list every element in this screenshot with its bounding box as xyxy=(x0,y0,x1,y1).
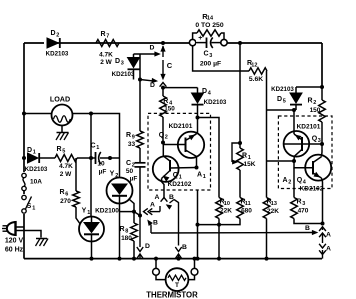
svg-text:470: 470 xyxy=(298,208,309,215)
thermistor T xyxy=(146,268,198,299)
svg-text:2 W: 2 W xyxy=(100,59,112,66)
svg-text:D: D xyxy=(27,147,32,154)
svg-text:22K: 22K xyxy=(267,208,279,215)
svg-text:5.6K: 5.6K xyxy=(249,76,263,83)
wire right drop from top rail xyxy=(321,43,323,87)
wire left rail xyxy=(23,43,25,259)
svg-text:C: C xyxy=(126,160,131,167)
svg-text:1: 1 xyxy=(32,206,35,212)
wire top to R1 xyxy=(239,43,241,143)
wire Q2 base xyxy=(163,144,186,146)
node dot thermistor right xyxy=(193,257,197,261)
thermistor terminal right xyxy=(191,259,198,276)
resistor R6 xyxy=(59,158,79,224)
ground near plug xyxy=(36,239,49,247)
svg-text:Y: Y xyxy=(82,208,87,215)
wire bottom rail xyxy=(24,258,322,260)
node dot D5 bottom xyxy=(292,108,296,112)
resistor R7 xyxy=(96,31,119,66)
svg-text:D: D xyxy=(115,58,120,65)
switch S1 xyxy=(21,194,35,214)
svg-text:A: A xyxy=(326,246,331,253)
node dot D4 bottom xyxy=(196,116,200,120)
svg-text:120 V: 120 V xyxy=(5,238,24,245)
svg-text:3: 3 xyxy=(121,61,124,67)
node dot R8 on rail xyxy=(132,257,136,261)
svg-text:50: 50 xyxy=(126,168,134,175)
node dot after C1 xyxy=(108,156,112,160)
svg-text:KD2100: KD2100 xyxy=(95,208,119,215)
thyristor Y2 xyxy=(107,171,133,259)
node dot emitter col y224 xyxy=(196,223,200,227)
svg-text:R: R xyxy=(296,199,301,206)
svg-text:6: 6 xyxy=(65,192,68,198)
wire D5 top to R2 top xyxy=(296,86,322,88)
wire Q2 emitter node right xyxy=(198,118,220,198)
svg-text:1: 1 xyxy=(87,210,90,216)
svg-text:1: 1 xyxy=(33,150,36,156)
wire plug neutral xyxy=(16,231,41,238)
svg-text:R: R xyxy=(56,146,61,153)
wire Q4 collector up xyxy=(321,144,324,157)
svg-text:KD2103: KD2103 xyxy=(25,166,48,173)
wire Q3 base xyxy=(284,143,322,145)
wire Q1 collector up to R4 node xyxy=(162,143,164,157)
node dot Y2 cathode on rail xyxy=(118,257,122,261)
capacitor C1 xyxy=(90,143,119,176)
net A arrow left xyxy=(144,201,161,215)
svg-text:2: 2 xyxy=(288,180,291,186)
net A arrows right column xyxy=(319,227,331,259)
node dot R2 top xyxy=(320,85,324,89)
svg-text:KD2101: KD2101 xyxy=(169,123,193,130)
net C connector arrows xyxy=(160,46,173,87)
resistor R2 xyxy=(307,87,325,144)
wire C node to R4 and D4 xyxy=(163,88,198,96)
svg-text:R: R xyxy=(242,153,247,160)
svg-text:2: 2 xyxy=(313,100,316,106)
svg-text:10A: 10A xyxy=(30,179,42,186)
svg-text:33: 33 xyxy=(128,141,136,148)
node dot C bottom junction xyxy=(161,86,165,90)
svg-text:5: 5 xyxy=(62,149,65,155)
svg-text:150: 150 xyxy=(310,107,321,114)
resistor R12 xyxy=(247,60,267,83)
svg-text:D: D xyxy=(202,88,207,95)
resistor R4 xyxy=(160,96,176,143)
dashed box module A2 xyxy=(278,116,332,189)
svg-text:7: 7 xyxy=(106,34,109,40)
svg-text:D: D xyxy=(50,30,55,37)
svg-text:0 TO 250: 0 TO 250 xyxy=(195,22,223,29)
svg-text:KD2102: KD2102 xyxy=(300,186,324,193)
wire R5 to C1 xyxy=(77,157,96,159)
net arrow A B below A1 xyxy=(155,194,175,202)
svg-text:11: 11 xyxy=(245,201,251,207)
net D arrow to rail xyxy=(137,216,150,259)
svg-text:B: B xyxy=(182,244,187,251)
svg-text:R: R xyxy=(163,98,168,105)
node dot Q2 collector Q1 base xyxy=(195,166,199,170)
net D arrow top xyxy=(150,45,160,56)
svg-text:2: 2 xyxy=(165,135,168,141)
node dot R2 bottom Q3 base xyxy=(320,142,324,146)
net B hook to lower column xyxy=(167,200,179,246)
svg-text:1: 1 xyxy=(179,175,182,181)
svg-text:B: B xyxy=(305,225,310,232)
resistor R10 xyxy=(216,198,233,259)
wire Q4 base node down xyxy=(293,168,295,198)
terminal circle left of C3 xyxy=(189,39,195,45)
svg-text:KD2103: KD2103 xyxy=(271,86,294,93)
wire rail to load xyxy=(24,113,52,115)
transistor Q4 xyxy=(282,155,331,193)
svg-text:R: R xyxy=(307,98,312,105)
svg-text:3: 3 xyxy=(318,138,321,144)
wire Q3 emitter up to D5 node xyxy=(293,110,295,134)
svg-text:13: 13 xyxy=(271,201,277,207)
label A1 xyxy=(197,172,206,181)
wire bypass top to D5 node xyxy=(267,109,295,111)
node dot left rail at D1 xyxy=(22,156,26,160)
wire bypass bottom to Q4 base node xyxy=(267,160,295,162)
resistor R11 xyxy=(237,198,253,219)
ground under load xyxy=(56,126,69,141)
svg-text:KD2103: KD2103 xyxy=(112,71,135,78)
wire C3 left terminal down xyxy=(193,46,249,71)
wire top rail xyxy=(24,42,322,44)
svg-text:2 W: 2 W xyxy=(60,171,72,178)
svg-text:KD2103: KD2103 xyxy=(204,99,227,106)
svg-text:4.7K: 4.7K xyxy=(99,52,113,59)
svg-text:9: 9 xyxy=(132,135,135,141)
transistor Q3 xyxy=(284,124,321,157)
svg-text:R: R xyxy=(100,31,105,38)
resistor R9 xyxy=(126,80,143,149)
wire Y2 gate xyxy=(130,200,135,212)
node dot R4 bottom Q1 collector xyxy=(161,141,165,145)
wire Q3 collector down xyxy=(293,156,295,161)
capacitor C2 xyxy=(126,148,146,216)
svg-text:8: 8 xyxy=(125,229,128,235)
svg-text:15K: 15K xyxy=(244,161,256,168)
svg-text:D: D xyxy=(145,243,150,250)
svg-text:14: 14 xyxy=(207,16,214,22)
svg-text:150: 150 xyxy=(164,106,175,113)
wire gate node to C2 node xyxy=(134,212,140,216)
node dot left rail at load xyxy=(22,112,26,116)
svg-text:B: B xyxy=(153,220,158,227)
svg-text:5: 5 xyxy=(283,99,286,105)
svg-text:10: 10 xyxy=(224,201,230,207)
resistor R5 xyxy=(55,146,77,178)
svg-text:1: 1 xyxy=(203,174,206,180)
node dot Y2 gate junction xyxy=(132,210,136,214)
svg-text:12: 12 xyxy=(251,63,257,69)
wire A1 emitter column xyxy=(197,190,199,259)
thyristor Y1 xyxy=(79,208,119,259)
svg-text:R: R xyxy=(126,132,131,139)
AC plug xyxy=(2,221,24,253)
net B wire long xyxy=(151,225,317,234)
svg-text:2: 2 xyxy=(115,173,118,179)
wire D3 top to net D arrow xyxy=(134,53,156,55)
svg-text:C: C xyxy=(167,61,173,70)
svg-text:680: 680 xyxy=(241,208,252,215)
svg-text:R: R xyxy=(119,226,124,233)
resistor R3 xyxy=(291,198,323,224)
svg-text:A: A xyxy=(326,232,331,239)
svg-text:1: 1 xyxy=(96,145,99,151)
svg-text:10: 10 xyxy=(97,161,105,168)
svg-text:270: 270 xyxy=(60,198,71,205)
node dot R10 y224 cross xyxy=(217,223,221,227)
node dot top rail right of C3 xyxy=(238,41,242,45)
svg-text:LOAD: LOAD xyxy=(50,94,70,103)
svg-text:A: A xyxy=(282,177,287,184)
rheostat R14 xyxy=(193,12,224,39)
svg-text:KD2102: KD2102 xyxy=(168,181,192,188)
svg-text:S: S xyxy=(27,203,32,210)
resistor R13 xyxy=(263,161,279,259)
wire Q2 emitter up to D4 node xyxy=(197,118,199,134)
net B arrow to rail xyxy=(175,244,187,259)
diode D4 xyxy=(192,88,227,118)
rheostat R1 wiper xyxy=(232,143,240,164)
dashed box module A1 xyxy=(148,113,211,190)
potentiometer R1 xyxy=(237,143,256,198)
net D arrow bottom xyxy=(140,79,157,89)
wire Y1 anode column xyxy=(90,114,92,217)
svg-text:R: R xyxy=(59,189,64,196)
svg-text:Y: Y xyxy=(110,171,115,178)
node dot thermistor left xyxy=(154,257,158,261)
wire y224 link xyxy=(198,219,241,225)
wire Q4 base xyxy=(294,161,313,168)
node dot net B on rail xyxy=(177,257,181,261)
svg-text:µF: µF xyxy=(130,176,138,183)
terminal circle right of C3 xyxy=(221,39,227,45)
resistor R8 xyxy=(119,212,137,259)
svg-text:2: 2 xyxy=(56,33,59,39)
wire R12 to A2 bypass xyxy=(266,71,268,161)
fuse 10A xyxy=(21,172,42,191)
wire D3 anode branch down xyxy=(139,54,141,80)
transistor Q1 xyxy=(153,156,192,197)
svg-text:180: 180 xyxy=(121,235,132,242)
svg-text:THERMISTOR: THERMISTOR xyxy=(146,290,198,299)
node dot R5 C1 junction xyxy=(89,156,93,160)
wire Q2 collector down xyxy=(196,156,198,167)
svg-text:D: D xyxy=(277,96,282,103)
lamp LOAD xyxy=(50,94,73,125)
node dot Y1 cathode on rail xyxy=(90,257,94,261)
node dot load line xyxy=(89,112,93,116)
node dot emitter col rail xyxy=(196,257,200,261)
svg-text:+: + xyxy=(198,35,202,42)
node dot C2 column bottom xyxy=(138,214,142,218)
node dot at D3 cathode junction xyxy=(138,78,142,82)
node dot R10 rail xyxy=(217,257,221,261)
svg-text:D: D xyxy=(150,82,155,89)
svg-text:A: A xyxy=(150,201,155,208)
diode D1 xyxy=(25,147,55,173)
svg-text:A: A xyxy=(197,172,202,179)
wire load to Y2 column xyxy=(73,114,120,178)
svg-text:200 µF: 200 µF xyxy=(200,61,221,68)
svg-text:µF: µF xyxy=(99,169,107,176)
capacitor C3 xyxy=(196,35,221,68)
svg-text:3: 3 xyxy=(209,53,212,59)
node dot Q3 collector Q4 base xyxy=(292,159,296,163)
svg-text:22K: 22K xyxy=(220,208,232,215)
diode D5 xyxy=(271,86,302,110)
wire Y2 bottom tie xyxy=(120,211,135,213)
svg-text:D: D xyxy=(150,45,155,52)
node dot R13 rail xyxy=(265,257,269,261)
node dot R1 top xyxy=(238,141,242,145)
svg-text:KD2101: KD2101 xyxy=(297,124,321,131)
svg-text:KD2103: KD2103 xyxy=(46,51,69,58)
transistor Q2 xyxy=(159,123,204,158)
diode D3 xyxy=(112,54,140,80)
thermistor terminal left xyxy=(153,259,160,276)
node dot Q4 emitter junction xyxy=(321,222,325,226)
svg-text:A: A xyxy=(155,194,160,201)
svg-text:T: T xyxy=(175,282,179,289)
wire plug to rail xyxy=(16,226,25,228)
svg-text:3: 3 xyxy=(302,201,305,207)
wire Q1 base xyxy=(170,167,197,170)
net B arrow mid xyxy=(148,220,158,234)
diode D2 xyxy=(44,30,69,58)
svg-text:4.7K: 4.7K xyxy=(59,163,73,170)
node dot top rail at C branch xyxy=(161,41,165,45)
wire Q4 emitter down xyxy=(322,178,323,224)
svg-text:60 Hz: 60 Hz xyxy=(5,246,24,253)
svg-text:C: C xyxy=(203,51,208,58)
